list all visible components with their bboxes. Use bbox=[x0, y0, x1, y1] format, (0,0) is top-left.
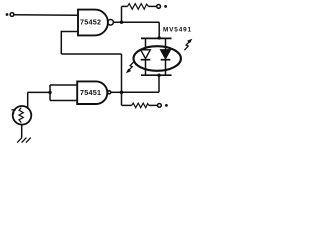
svg-text:75451: 75451 bbox=[80, 88, 101, 97]
svg-text:MV5491: MV5491 bbox=[163, 27, 192, 34]
svg-text:75452: 75452 bbox=[80, 18, 101, 27]
